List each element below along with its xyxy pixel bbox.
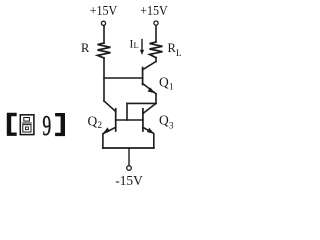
current arrow IL (downward) [141,40,143,51]
Q2 emitter lead with arrow [104,127,116,133]
svg-text:R: R [81,41,90,55]
Q3 collector lead [143,103,156,113]
caption left lenticular bracket [7,113,17,136]
-15V terminal circle [127,166,132,171]
wire: Q1 emitter down to node B [155,94,157,104]
caption right lenticular bracket [55,113,65,136]
svg-text:Q: Q [88,114,98,129]
wire: Q2 emitter down to bottom rail [102,134,104,148]
wire: common base rail Q2-Q3 [116,119,143,121]
transistor Q2 base bar [115,109,117,131]
svg-text:-15V: -15V [115,174,143,189]
svg-text:3: 3 [169,121,174,131]
wire: node B horizontal [127,102,156,104]
wire: left terminal to resistor R top [103,26,105,43]
Q3 emitter lead with arrow [143,127,153,133]
svg-text:1: 1 [169,81,174,91]
svg-text:Q: Q [159,74,169,89]
caption character 圖 [20,115,34,135]
wire: bottom emitter rail [103,147,154,149]
right +15V terminal circle [154,21,158,25]
Q2 collector lead [104,101,116,112]
svg-text:L: L [176,48,182,58]
wire: node B down to base rail [126,103,128,120]
wire: right terminal to resistor RL top [155,25,157,42]
wire: node A vertical (R bottom to Q2 collector) [103,58,105,101]
wire: node A to Q1 base [104,77,143,79]
wire: Q3 emitter down to bottom rail [153,134,155,148]
svg-text:L: L [134,40,139,50]
svg-text:+15V: +15V [90,4,118,19]
svg-text:Q: Q [159,113,169,128]
svg-text:+15V: +15V [140,4,168,19]
svg-text:9: 9 [42,110,51,142]
Q1 emitter lead with arrow [143,84,156,94]
wire: rail to -15V terminal [128,148,130,166]
transistor Q1 base bar [142,68,144,85]
svg-text:2: 2 [98,120,103,130]
left +15V terminal circle [101,21,105,25]
transistor Q3 base bar [142,109,144,131]
resistor R [98,43,111,58]
resistor RL [150,42,163,58]
Q1 collector lead [143,62,156,70]
wire: RL bottom to Q1 collector [155,58,157,62]
